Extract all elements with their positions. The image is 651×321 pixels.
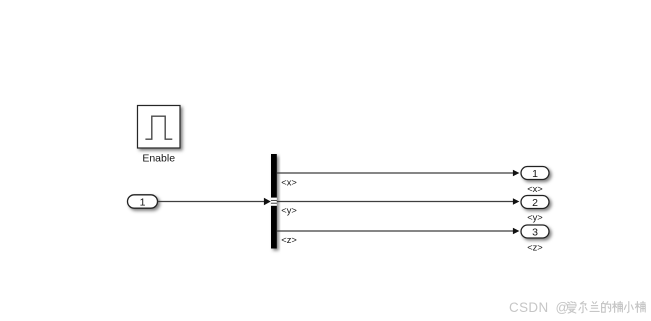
svg-text:@: @ [556,300,570,315]
svg-text:Enable: Enable [142,153,175,165]
svg-text:1: 1 [140,196,146,208]
svg-text:<x>: <x> [527,184,543,194]
svg-text:<z>: <z> [527,243,543,253]
svg-text:2: 2 [532,197,538,209]
svg-text:<z>: <z> [281,235,297,245]
svg-text:<x>: <x> [281,177,297,187]
svg-text:1: 1 [532,168,538,180]
svg-text:<y>: <y> [281,206,297,216]
svg-text:3: 3 [532,226,538,238]
svg-text:<y>: <y> [527,212,543,222]
svg-text:CSDN: CSDN [509,300,549,315]
